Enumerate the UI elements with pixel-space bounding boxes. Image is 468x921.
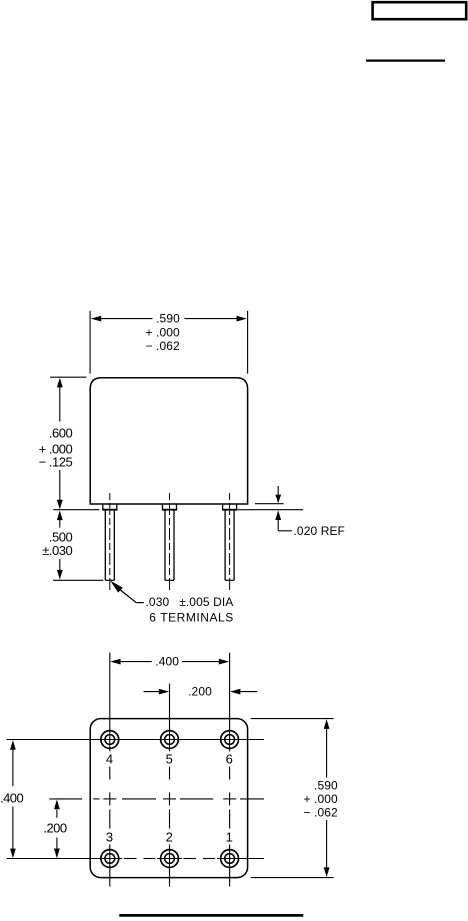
column 4-3 centerline — [109, 653, 111, 887]
svg-text:.600: .600 — [49, 426, 73, 441]
svg-text:.590: .590 — [314, 778, 338, 792]
dimension .500 top arrow — [57, 510, 63, 520]
dimension .590 (right) top arrow — [324, 719, 330, 729]
dimension .590 (right) extension lines — [251, 718, 334, 720]
svg-text:5: 5 — [166, 751, 173, 766]
dimension .500 bottom arrow — [57, 570, 63, 580]
base outline — [90, 719, 247, 878]
pin tip extension line (left) — [53, 579, 103, 581]
dimension .400 (top) dimension line — [120, 661, 152, 663]
terminal 5 pad — [161, 731, 179, 749]
dimension .400 (top) left arrow — [110, 659, 120, 665]
svg-text:.590: .590 — [156, 311, 180, 325]
terminal 3 pad — [101, 850, 119, 868]
column 6-1 centerline — [229, 653, 231, 887]
.020 REF up arrow and leader — [275, 510, 281, 520]
dimension .400 (left) top arrow — [10, 740, 16, 750]
terminal T3 centerline — [229, 493, 231, 591]
dimension .200 (left) dimension line — [56, 810, 58, 818]
terminal T1 pin — [105, 510, 114, 581]
svg-text:3: 3 — [106, 829, 113, 844]
dimension .500 pin length dimension line — [59, 520, 61, 528]
middle centerline with crosses — [49, 792, 264, 805]
svg-text:.020 REF: .020 REF — [294, 524, 346, 538]
dimension .590 width (top) left arrow — [91, 316, 101, 322]
terminal T1 collar — [102, 504, 117, 510]
row 2 centerline — [7, 858, 265, 860]
dimension .600 height (left) dimension line — [59, 387, 61, 422]
dimension .590 (right) dimension line — [326, 729, 328, 778]
title block box (top right) — [373, 2, 467, 19]
terminal 1 pad — [221, 850, 239, 868]
dimension .590 (right) bottom arrow — [324, 867, 330, 877]
terminal T2 collar — [162, 504, 177, 510]
terminal 4 pad — [101, 731, 119, 749]
svg-text:− .125: − .125 — [39, 455, 73, 470]
footer heavy line — [119, 914, 303, 917]
dimension .600 height (left) bottom arrow — [57, 500, 63, 510]
heavy rule under title block — [366, 59, 445, 61]
dimension .200 (left) bottom arrow — [54, 849, 60, 859]
dimension .400 (left) bottom arrow — [10, 849, 16, 859]
case body outline — [90, 378, 247, 504]
dimension .400 (left) dimension line — [12, 749, 14, 786]
terminal T2 pin — [165, 510, 174, 581]
svg-text:2: 2 — [166, 829, 173, 844]
leader arrow to terminal T1 tip — [110, 581, 123, 593]
terminal 2 pad — [161, 850, 179, 868]
svg-text:6: 6 — [226, 751, 233, 766]
svg-text:+ .000: + .000 — [303, 792, 338, 806]
dimension .400 (top) right arrow — [219, 659, 229, 665]
dimension .590 width (top) extension lines — [89, 311, 91, 374]
svg-text:±.030: ±.030 — [42, 543, 72, 558]
dimension .590 width (top) right arrow — [237, 316, 247, 322]
.020 REF down arrow and stem — [277, 486, 279, 495]
svg-text:.200: .200 — [43, 821, 67, 836]
svg-text:1: 1 — [226, 829, 233, 844]
dimension .200 (left) top arrow — [54, 800, 60, 810]
seating plane extension line (left) — [53, 509, 99, 511]
dimension .590 width (top) dimension line — [101, 318, 153, 320]
terminal T3 collar — [222, 504, 237, 510]
.020 REF upper tick line — [255, 503, 284, 505]
terminal T1 centerline — [109, 493, 111, 591]
svg-text:+ .000: + .000 — [145, 326, 180, 340]
svg-text:4: 4 — [106, 751, 113, 766]
dimension .600 height (left) top arrow — [57, 378, 63, 388]
svg-text:− .062: − .062 — [303, 805, 338, 819]
row 1 centerline — [7, 739, 265, 741]
dimension .200 (top) right arrow and line — [230, 689, 240, 695]
svg-text:.400: .400 — [0, 791, 24, 806]
terminal T2 centerline — [169, 493, 171, 591]
terminal 6 pad — [221, 731, 239, 749]
svg-text:.400: .400 — [155, 654, 179, 668]
svg-text:6 TERMINALS: 6 TERMINALS — [149, 610, 234, 624]
svg-text:.030: .030 — [146, 595, 170, 609]
column 5-2 centerline — [169, 684, 171, 887]
dimension .600 height (left) top extension line — [50, 376, 87, 378]
dimension .200 (top) left line and arrow — [144, 691, 160, 693]
terminal T3 pin — [225, 510, 234, 581]
svg-text:.200: .200 — [188, 685, 212, 699]
.020 REF seating plane line — [238, 509, 304, 511]
svg-text:±.005 DIA: ±.005 DIA — [179, 595, 233, 609]
svg-text:− .062: − .062 — [145, 339, 180, 353]
